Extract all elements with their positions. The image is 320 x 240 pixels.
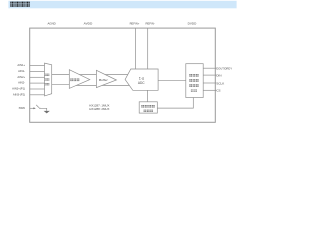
svg-text:AIN3-(P2): AIN3-(P2) [13,92,25,96]
svg-text:ADC: ADC [138,81,145,85]
svg-text:SCLK: SCLK [216,81,224,85]
svg-text:AIN1-: AIN1- [18,69,25,73]
svg-text:HX1288: 2MUX: HX1288: 2MUX [89,107,109,111]
left pin labels AIN [12,63,25,96]
svg-text:AIN3+(P1): AIN3+(P1) [12,87,25,91]
wire switch to ground [40,108,47,111]
svg-text:Buffer: Buffer [99,78,109,82]
svg-text:PDWN: PDWN [19,106,25,110]
svg-text:REFIN+: REFIN+ [130,22,140,26]
chip boundary [30,28,216,122]
ground arrow [44,111,50,114]
PDWN wire [30,107,34,109]
switch blade [36,105,39,108]
svg-text:CS: CS [216,89,220,93]
svg-text:DOUT/DRDY: DOUT/DRDY [216,67,232,71]
amplifier triangle [69,70,90,89]
wire ADC to interface [158,79,186,81]
svg-text:AIN2+: AIN2+ [17,75,25,79]
interface text 串行接/口和输/出控制/逻辑 (simulated) [189,74,198,92]
left pin wires [30,66,45,95]
svg-text:DVDD: DVDD [188,22,197,26]
mux text 输入/多路/选择 (simulated) [45,74,50,86]
right pin wires [203,68,216,90]
differential rail wires mux to ADC [52,75,130,86]
title bar [8,1,236,9]
svg-text:DIN: DIN [216,74,221,78]
wire ADC to oscillator [146,90,148,102]
internal clock oscillator box [139,102,157,113]
serial interface and control logic box [186,64,203,98]
REFIN- wire [147,28,149,69]
REFIN+ wire [134,28,136,69]
wire oscillator to interface [157,98,193,109]
PDWN arrow head [33,107,35,109]
svg-text:REFIN-: REFIN- [146,22,155,26]
svg-text:AVDD: AVDD [84,22,93,26]
svg-text:AGND: AGND [48,22,57,26]
svg-text:AIN1+: AIN1+ [17,63,25,67]
svg-text:AIN2-: AIN2- [18,81,25,85]
switch contact [39,108,40,109]
oscillator text 内部时钟/振荡器 (simulated) [141,105,154,112]
amplifier text 放大器 (simulated) [70,78,79,81]
buffer triangle [96,70,116,87]
input mux trapezoid [45,63,52,96]
title text 内部框图 (simulated CJK glyphs) [10,2,29,7]
sigma-delta ADC pentagon [125,69,158,90]
